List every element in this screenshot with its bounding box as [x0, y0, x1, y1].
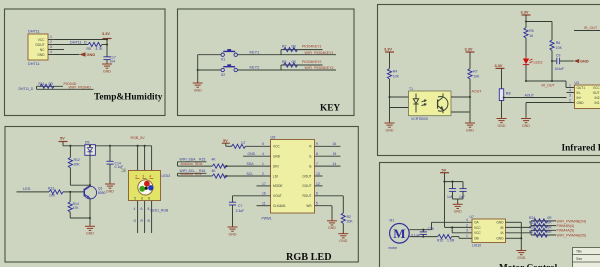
- resistor R13 10K: [48, 187, 63, 198]
- svg-text:Motor Control: Motor Control: [499, 264, 558, 267]
- svg-text:4: 4: [50, 50, 52, 54]
- svg-text:1uF: 1uF: [459, 195, 465, 199]
- svg-text:5: 5: [262, 142, 264, 146]
- svg-text:1: 1: [262, 162, 264, 166]
- wire DOUT: [55, 44, 88, 46]
- resistor R26 0R: [529, 225, 552, 232]
- svg-text:RGB LED: RGB LED: [286, 252, 332, 263]
- svg-text:104uF: 104uF: [554, 67, 564, 71]
- power port 3.3V mid: [521, 10, 531, 15]
- ground under C7: [228, 226, 238, 237]
- svg-text:KEY: KEY: [320, 103, 340, 113]
- ground: [102, 63, 112, 74]
- svg-text:4: 4: [134, 207, 136, 211]
- svg-text:0R: 0R: [547, 216, 552, 220]
- svg-text:3: 3: [142, 175, 144, 179]
- svg-text:3: 3: [50, 45, 52, 49]
- svg-text:16: 16: [262, 192, 266, 196]
- svg-text:PIO04KEY1: PIO04KEY1: [302, 45, 321, 49]
- svg-text:M1: M1: [390, 219, 395, 223]
- svg-text:WIFI_PWM4B(D4): WIFI_PWM4B(D4): [557, 219, 587, 223]
- capacitor C9 104: [554, 53, 564, 71]
- ground under caps: [453, 203, 463, 214]
- svg-text:R11: R11: [39, 82, 45, 86]
- svg-text:9: 9: [316, 142, 318, 146]
- svg-text:LDI: LDI: [273, 174, 278, 178]
- svg-text:WIFI_SDA: WIFI_SDA: [180, 157, 197, 161]
- svg-text:1uF: 1uF: [447, 195, 453, 199]
- svg-text:2: 2: [466, 223, 468, 227]
- svg-text:WIFI_PIO04D: WIFI_PIO04D: [69, 86, 92, 90]
- svg-text:5: 5: [316, 202, 318, 206]
- svg-text:OUT: OUT: [593, 91, 600, 95]
- svg-text:3.3V: 3.3V: [102, 31, 110, 36]
- svg-text:KEY2: KEY2: [250, 66, 260, 70]
- svg-text:B: B: [309, 164, 311, 168]
- svg-text:3: 3: [466, 229, 468, 233]
- wire IB IA: [506, 221, 532, 235]
- svg-text:4K: 4K: [212, 169, 217, 173]
- svg-text:104: 104: [110, 59, 116, 63]
- ground under U7: [516, 249, 526, 260]
- wire PWM row3: [531, 229, 556, 231]
- svg-text:PWM4A(5): PWM4A(5): [557, 229, 575, 233]
- wire GND pin of U3: [526, 103, 575, 119]
- svg-text:R24: R24: [529, 216, 535, 220]
- wire base: [17, 191, 85, 193]
- svg-text:LED3: LED3: [162, 174, 171, 178]
- pin stub CLK: [257, 202, 271, 206]
- svg-text:6: 6: [141, 197, 143, 201]
- svg-text:GND: GND: [577, 101, 585, 105]
- svg-text:47K: 47K: [73, 206, 80, 210]
- svg-text:L9110: L9110: [472, 243, 481, 247]
- svg-text:1: 1: [569, 84, 571, 88]
- svg-text:6: 6: [316, 192, 318, 196]
- resistor R9 4.7K pull-up: [87, 42, 108, 50]
- resistor R2 20K: [341, 213, 353, 234]
- svg-text:20K: 20K: [74, 162, 81, 166]
- svg-text:KEY1: KEY1: [250, 50, 260, 54]
- wire VOUT to C7: [233, 192, 271, 203]
- svg-text:U3: U3: [575, 81, 579, 85]
- resistor R11 0R: [39, 82, 55, 88]
- svg-text:PIO05KEY2: PIO05KEY2: [302, 60, 321, 64]
- svg-text:OOUT: OOUT: [302, 174, 311, 178]
- svg-text:10K: 10K: [393, 75, 400, 79]
- resistor R15 4K: [199, 157, 226, 168]
- svg-text:K1: K1: [221, 58, 225, 62]
- directive arrow grey: [121, 168, 126, 172]
- wire row pair KEY1: [281, 50, 336, 55]
- wire left rail: [197, 55, 199, 83]
- ground: [193, 82, 203, 93]
- ground under R2: [338, 232, 348, 243]
- svg-text:1: 1: [50, 35, 52, 39]
- LED D2 red: [523, 57, 543, 65]
- svg-text:1K: 1K: [529, 34, 534, 38]
- power port 5V at U5: [222, 138, 230, 146]
- transistor Q1 8050: [84, 186, 106, 199]
- svg-text:VCC: VCC: [474, 226, 481, 230]
- svg-text:PWM4B(4): PWM4B(4): [557, 224, 575, 228]
- svg-text:C9: C9: [556, 53, 560, 57]
- svg-text:R6: R6: [556, 41, 560, 45]
- wire AOUT to comparator: [504, 97, 567, 99]
- title block: [573, 248, 600, 267]
- svg-text:GND: GND: [273, 155, 281, 159]
- svg-text:DHT11_D: DHT11_D: [70, 40, 87, 44]
- svg-text:WIFI_PIO05KEY2: WIFI_PIO05KEY2: [305, 66, 334, 70]
- sheet border RGB LED: [5, 127, 358, 263]
- svg-text:Temp&Humidity: Temp&Humidity: [94, 93, 163, 103]
- svg-text:LED1_RGB: LED1_RGB: [151, 208, 169, 212]
- svg-text:DIN: DIN: [273, 164, 279, 168]
- svg-text:DHT11: DHT11: [28, 62, 40, 66]
- ground under R8: [497, 117, 507, 128]
- svg-text:4: 4: [466, 218, 468, 222]
- svg-text:R12: R12: [74, 158, 80, 162]
- svg-text:OB: OB: [474, 237, 479, 241]
- svg-text:IN-: IN-: [577, 91, 581, 95]
- svg-text:GND: GND: [496, 221, 504, 225]
- svg-text:12: 12: [316, 182, 320, 186]
- svg-text:ROUT: ROUT: [302, 194, 311, 198]
- resistor R27 0R: [529, 230, 552, 237]
- wire U7 GND pins: [506, 222, 523, 250]
- svg-text:8050: 8050: [98, 191, 106, 195]
- svg-text:LED: LED: [23, 187, 31, 191]
- power port GND arrow right: [560, 59, 589, 64]
- pin stubs U5 right rows 1-3: [315, 142, 341, 166]
- svg-text:PWM1: PWM1: [262, 216, 272, 220]
- svg-text:DHT11: DHT11: [28, 30, 40, 34]
- wire 5V top: [63, 145, 152, 147]
- svg-text:Arduino_SCL: Arduino_SCL: [181, 172, 202, 176]
- wire rail down: [106, 40, 108, 57]
- svg-text:L2: L2: [242, 141, 246, 145]
- svg-text:5V: 5V: [223, 138, 228, 143]
- ground right: [465, 122, 475, 133]
- power port GND arrow: [80, 52, 96, 57]
- svg-text:Title: Title: [576, 250, 582, 254]
- switch K1: [221, 49, 237, 62]
- svg-text:10K: 10K: [49, 194, 56, 198]
- wire GND pin U5: [243, 152, 271, 156]
- wire VCC to 3.3V rail: [55, 39, 107, 41]
- svg-text:3.3uF: 3.3uF: [236, 209, 245, 213]
- sheet border Motor: [380, 163, 600, 267]
- svg-text:VCC: VCC: [593, 86, 600, 90]
- svg-text:Arduino_SDA: Arduino_SDA: [181, 162, 203, 166]
- svg-text:GND: GND: [496, 237, 504, 241]
- svg-text:3.3V: 3.3V: [384, 47, 392, 52]
- wire NC stub: [55, 49, 64, 51]
- wire sensor right stubs: [451, 97, 470, 112]
- svg-text:20K: 20K: [347, 220, 354, 224]
- svg-text:5: 5: [134, 197, 136, 201]
- pin stubs U5 right rows 4-5: [315, 172, 323, 186]
- svg-text:R13: R13: [48, 187, 54, 191]
- wire motor top: [409, 222, 472, 230]
- svg-text:VCC: VCC: [273, 145, 280, 149]
- wire stubs to sensor: [390, 97, 409, 108]
- wire PWM row1: [531, 220, 556, 222]
- svg-text:1: 1: [466, 234, 468, 238]
- power port 3.3V: [102, 31, 112, 39]
- resistor R7 10K: [468, 69, 480, 80]
- capacitor C7 0.1uF: [229, 202, 244, 227]
- svg-text:0R: 0R: [547, 230, 552, 234]
- sensor T1 TCRT5000: [409, 87, 452, 121]
- wire motor bottom: [409, 236, 437, 238]
- svg-text:R26: R26: [529, 225, 535, 229]
- capacitor C13 1uF: [459, 189, 467, 199]
- wire SDA row pair: [178, 162, 271, 167]
- svg-text:SDA: SDA: [247, 162, 255, 166]
- svg-text:1.0R: 1.0R: [447, 238, 455, 242]
- switch K2: [221, 64, 237, 77]
- ground under Q1: [85, 225, 95, 236]
- svg-text:C7: C7: [238, 204, 242, 208]
- svg-text:15: 15: [333, 152, 337, 156]
- svg-text:LED2: LED2: [534, 61, 543, 65]
- diode D5: [85, 141, 96, 156]
- svg-text:M: M: [393, 226, 405, 241]
- wire 5V rail: [443, 173, 445, 228]
- svg-text:0.1uF: 0.1uF: [411, 233, 420, 237]
- wire RGB verticals top: [137, 145, 152, 172]
- svg-text:4: 4: [262, 152, 264, 156]
- wire GND pin: [55, 54, 80, 56]
- svg-text:CLK&ML: CLK&ML: [273, 204, 286, 208]
- svg-text:13: 13: [316, 172, 320, 176]
- svg-text:R8: R8: [506, 92, 511, 96]
- wire KEY1: [237, 54, 281, 56]
- potentiometer R8: [499, 89, 510, 101]
- svg-text:0R: 0R: [547, 225, 552, 229]
- svg-text:R10: R10: [437, 238, 443, 242]
- svg-text:R27: R27: [529, 230, 535, 234]
- svg-text:2: 2: [50, 40, 52, 44]
- wire cap branch: [445, 181, 464, 189]
- power port 3.3V at R8: [495, 63, 505, 89]
- svg-text:R8: R8: [282, 60, 286, 64]
- driver U7 L9110: [466, 215, 506, 247]
- node junction 3.3V rail: [106, 38, 108, 40]
- svg-text:GOUT: GOUT: [302, 184, 311, 188]
- resistor R16 4K: [199, 169, 226, 178]
- power port 3.3V right: [465, 47, 475, 52]
- svg-text:RGB_5V: RGB_5V: [131, 136, 146, 140]
- svg-text:AOUT: AOUT: [472, 90, 483, 94]
- svg-text:U5: U5: [271, 136, 276, 140]
- power port 5V motor: [440, 168, 449, 173]
- wire branch to R6: [526, 22, 552, 41]
- svg-text:4K: 4K: [212, 157, 217, 161]
- svg-text:IN1: IN1: [595, 101, 600, 105]
- sheet border Infrared: [378, 5, 600, 156]
- svg-text:4.7K: 4.7K: [96, 47, 104, 51]
- svg-text:MODE: MODE: [273, 184, 283, 188]
- svg-text:10K: 10K: [473, 75, 480, 79]
- svg-text:VCRT5000: VCRT5000: [411, 117, 428, 121]
- svg-text:U7: U7: [470, 215, 474, 219]
- svg-text:Size: Size: [576, 257, 582, 261]
- wire to K1: [198, 54, 221, 56]
- svg-text:17: 17: [262, 182, 266, 186]
- wire SCL row pair: [178, 173, 271, 177]
- svg-text:2: 2: [569, 99, 571, 103]
- motor M1: [389, 219, 410, 250]
- svg-text:8: 8: [148, 197, 150, 201]
- sheet border KEY: [178, 9, 355, 116]
- ground left: [385, 122, 395, 133]
- svg-text:R15: R15: [199, 157, 205, 161]
- sensor U1 DHT11: [28, 30, 55, 66]
- svg-text:GND: GND: [248, 152, 256, 156]
- svg-text:IR_OUT: IR_OUT: [584, 26, 598, 30]
- wire WS pin to ground: [315, 202, 333, 221]
- wire R8 to ground: [501, 101, 503, 119]
- power port 5V: [59, 135, 68, 145]
- svg-text:R7: R7: [473, 70, 477, 74]
- svg-text:DHT11_D: DHT11_D: [19, 87, 34, 91]
- capacitor C15 0.1uF motor: [411, 227, 434, 237]
- wire cap to ground: [106, 60, 108, 64]
- svg-text:5V: 5V: [60, 135, 65, 140]
- capacitor C17 104: [103, 55, 115, 63]
- resistor R7 0R: [282, 44, 298, 51]
- wire LED to out node: [525, 65, 575, 88]
- svg-text:IN2: IN2: [595, 96, 600, 100]
- wire mid rail: [525, 15, 527, 57]
- svg-text:GND: GND: [87, 52, 96, 57]
- svg-text:3.3V: 3.3V: [465, 47, 473, 52]
- resistor R5 1K: [524, 28, 534, 38]
- wire RGB verticals bottom: [134, 201, 152, 233]
- resistor R6 10K: [550, 40, 563, 51]
- svg-text:R2: R2: [347, 215, 351, 219]
- svg-text:OUT1: OUT1: [577, 86, 586, 90]
- wire caps to ground: [453, 199, 464, 204]
- svg-text:IB: IB: [500, 226, 503, 230]
- wire PWM row4: [531, 234, 556, 236]
- wire row pair KEY2: [281, 65, 336, 70]
- capacitor C14 0.1uF: [106, 146, 123, 184]
- svg-text:C15: C15: [428, 227, 434, 231]
- wire IN- stub: [567, 92, 575, 94]
- svg-text:R5: R5: [529, 29, 533, 33]
- wire left rail: [388, 52, 390, 123]
- svg-text:Infrared Re: Infrared Re: [562, 144, 600, 154]
- resistor R14 47K: [68, 192, 90, 218]
- svg-text:2: 2: [135, 175, 137, 179]
- wire KEY2: [237, 69, 281, 71]
- resistor R12 20K: [68, 146, 91, 186]
- svg-text:VOUT: VOUT: [273, 194, 282, 198]
- svg-text:VCC: VCC: [38, 38, 45, 42]
- svg-text:NC: NC: [40, 48, 45, 52]
- svg-text:0R: 0R: [292, 44, 297, 48]
- driver U5: [262, 136, 315, 221]
- svg-text:K2: K2: [221, 73, 225, 77]
- wire IR_OUT top right: [574, 30, 600, 32]
- wire right rail: [469, 52, 471, 123]
- svg-text:14: 14: [333, 162, 337, 166]
- pin stub MODE: [257, 182, 271, 186]
- svg-text:GND: GND: [580, 59, 589, 64]
- svg-text:4: 4: [569, 89, 571, 93]
- svg-text:5V: 5V: [442, 168, 447, 173]
- wire ROUT to R2: [315, 192, 344, 213]
- svg-text:3: 3: [569, 94, 571, 98]
- svg-text:8: 8: [148, 207, 150, 211]
- wire VCC rows: [445, 226, 473, 232]
- power port 3.3V left: [384, 47, 394, 52]
- svg-text:GND: GND: [37, 53, 45, 57]
- svg-text:IN+: IN+: [577, 96, 582, 100]
- inductor L2: [226, 141, 271, 149]
- svg-text:R25: R25: [529, 221, 535, 225]
- svg-text:WS: WS: [306, 204, 311, 208]
- wire emitter to ground: [89, 198, 91, 226]
- capacitor C12 1uF: [447, 189, 456, 199]
- svg-text:0R: 0R: [292, 60, 297, 64]
- svg-text:4: 4: [149, 175, 151, 179]
- ground under WS: [327, 219, 337, 230]
- svg-text:VCC: VCC: [474, 231, 481, 235]
- resistor R10 1.0R: [437, 235, 472, 243]
- ground under C14: [105, 183, 115, 194]
- svg-text:AOUT: AOUT: [525, 93, 534, 97]
- svg-text:10K: 10K: [556, 46, 563, 50]
- svg-text:R9: R9: [87, 47, 91, 51]
- svg-text:WIFI_PWM4A(D5): WIFI_PWM4A(D5): [557, 233, 587, 237]
- svg-text:DOUT: DOUT: [35, 43, 44, 47]
- wire to K2: [198, 69, 221, 71]
- wire bottom row pair: [37, 86, 94, 89]
- svg-text:8: 8: [316, 152, 318, 156]
- svg-text:11: 11: [262, 202, 266, 206]
- svg-text:16: 16: [333, 142, 337, 146]
- svg-text:0R: 0R: [547, 221, 552, 225]
- svg-text:IR_OUT: IR_OUT: [542, 84, 556, 88]
- wire R6 to C9: [551, 51, 556, 83]
- ground under U3: [521, 117, 531, 128]
- svg-text:D5: D5: [85, 141, 89, 145]
- resistor R4 10K: [387, 69, 399, 80]
- svg-text:R4: R4: [393, 70, 397, 74]
- svg-text:SCL: SCL: [247, 172, 254, 176]
- resistor R24 0R: [529, 216, 552, 223]
- resistor R8 0R: [282, 60, 298, 67]
- LED3 RGB led: [129, 171, 171, 201]
- wire PWM row2: [531, 225, 556, 227]
- svg-text:0R: 0R: [49, 82, 54, 86]
- svg-text:6: 6: [141, 207, 143, 211]
- svg-text:WIFI_PIO04KEY1: WIFI_PIO04KEY1: [305, 51, 334, 55]
- svg-text:G: G: [134, 219, 137, 223]
- wire D5 to collector: [89, 155, 91, 186]
- comparator U3: [569, 81, 600, 109]
- svg-text:2: 2: [262, 172, 264, 176]
- resistor R25 0R: [529, 221, 552, 228]
- svg-text:7: 7: [316, 162, 318, 166]
- svg-text:motor: motor: [389, 246, 399, 250]
- svg-text:3.3V: 3.3V: [495, 63, 503, 68]
- svg-text:T1: T1: [409, 87, 413, 91]
